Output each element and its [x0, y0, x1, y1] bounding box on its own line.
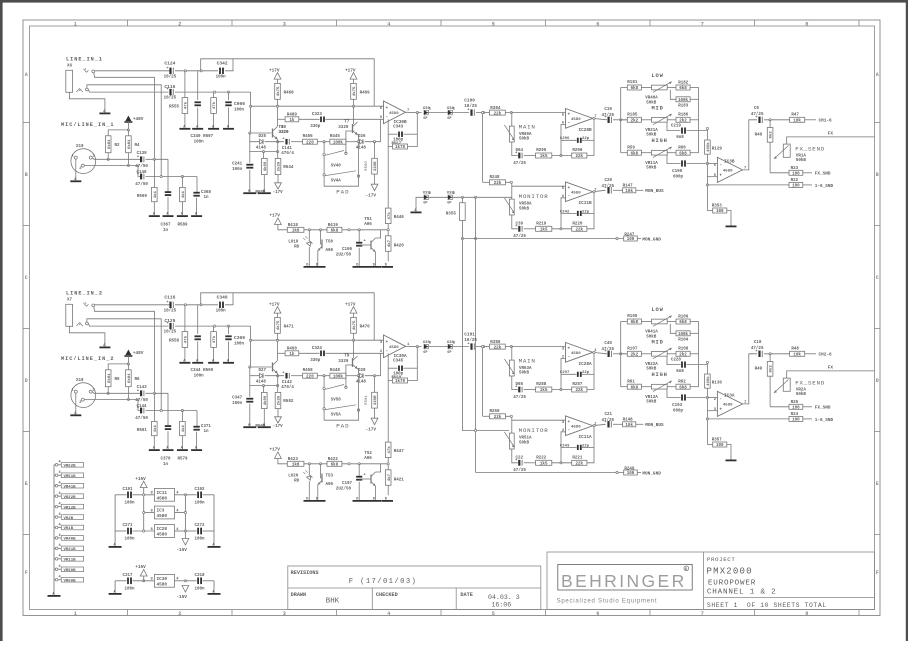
svg-text:IC28A: IC28A	[579, 362, 593, 367]
svg-text:3: 3	[283, 21, 286, 27]
svg-text:100n: 100n	[232, 402, 243, 406]
ground bias emitters	[353, 500, 382, 502]
wire line tip	[95, 70, 170, 72]
svg-text:A: A	[25, 72, 28, 78]
svg-text:DRAWN: DRAWN	[291, 592, 307, 598]
svg-text:6P: 6P	[423, 202, 427, 206]
svg-text:100n: 100n	[195, 538, 206, 542]
svg-text:R420: R420	[394, 244, 405, 248]
wire C139 out down to C367	[167, 393, 169, 425]
potentiometer terminal VR11B	[55, 558, 58, 561]
svg-text:4580: 4580	[157, 582, 168, 587]
svg-text:50kB: 50kB	[796, 158, 807, 163]
wire decouple right bus	[213, 495, 215, 542]
op-amp IC11 4580 power pins	[154, 488, 174, 501]
svg-text:A: A	[876, 72, 879, 78]
svg-text:VR62B: VR62B	[64, 465, 77, 469]
wire jack sleeve to ground	[69, 326, 105, 342]
svg-text:R: R	[685, 567, 687, 571]
capacitor C370 1n	[165, 425, 171, 427]
jack ring contact	[76, 323, 82, 327]
svg-text:D: D	[25, 378, 28, 384]
resistor R61 6k8	[621, 386, 628, 388]
svg-text:C193: C193	[672, 404, 683, 408]
svg-text:-17V: -17V	[366, 194, 377, 199]
wire monitor inverting input	[561, 432, 566, 448]
svg-text:2: 2	[178, 611, 181, 617]
potentiometer terminal VR50B	[55, 568, 58, 571]
svg-text:C345: C345	[393, 359, 404, 363]
op-amp IC3A 4580	[717, 391, 742, 416]
svg-text:+17V: +17V	[345, 302, 356, 307]
svg-text:+: +	[386, 106, 389, 111]
svg-text:100n: 100n	[125, 501, 136, 505]
svg-text:C10: C10	[754, 341, 762, 345]
svg-text:R295: R295	[536, 149, 547, 153]
svg-text:220: 220	[306, 375, 314, 379]
svg-text:MON_GND: MON_GND	[642, 471, 661, 476]
ground XLR pin1	[75, 393, 77, 410]
power +17V preamp right	[350, 307, 357, 314]
svg-text:6k8: 6k8	[631, 385, 639, 390]
wire EQ left bus	[620, 322, 622, 387]
wire jack sleeve to ground	[69, 92, 105, 108]
wire XLR pin3 to C139	[92, 158, 140, 160]
svg-text:100n: 100n	[195, 501, 206, 505]
wire EQ output	[743, 354, 758, 404]
svg-text:4148: 4148	[256, 381, 267, 385]
ground R420	[382, 500, 393, 502]
svg-text:+17V: +17V	[345, 68, 356, 73]
svg-text:CH1-6: CH1-6	[819, 119, 833, 124]
svg-text:R220: R220	[572, 223, 583, 227]
svg-text:VR41B: VR41B	[64, 485, 77, 489]
svg-text:A06: A06	[364, 223, 372, 227]
svg-text:PAD: PAD	[336, 422, 349, 429]
wire pad bottom	[324, 176, 358, 186]
svg-text:IC30B: IC30B	[394, 120, 408, 125]
svg-text:T51: T51	[364, 218, 372, 222]
svg-text:100: 100	[792, 407, 800, 411]
svg-text:4580: 4580	[723, 403, 733, 407]
svg-text:-: -	[386, 349, 389, 354]
svg-text:R447: R447	[394, 450, 405, 454]
svg-text:MONITOR: MONITOR	[519, 193, 549, 200]
svg-text:4148: 4148	[356, 147, 367, 151]
svg-text:47/50: 47/50	[135, 416, 148, 421]
svg-text:1k5: 1k5	[540, 228, 548, 233]
svg-text:-17V: -17V	[273, 191, 284, 195]
svg-text:OF 10 SHEETS TOTAL: OF 10 SHEETS TOTAL	[747, 602, 827, 609]
svg-text:T7: T7	[344, 120, 350, 124]
svg-text:R501: R501	[365, 395, 369, 405]
svg-text:BHK: BHK	[326, 598, 340, 606]
resistor R597 47k	[213, 92, 215, 98]
svg-text:VR1A: VR1A	[796, 154, 807, 158]
svg-text:100: 100	[792, 185, 800, 189]
svg-text:C317: C317	[123, 574, 134, 578]
svg-text:IC28: IC28	[157, 527, 168, 532]
svg-text:RD: RD	[294, 245, 300, 249]
resistor R589 1k1	[181, 177, 183, 188]
svg-text:LINE_IN_2: LINE_IN_2	[66, 291, 103, 297]
svg-text:5: 5	[492, 611, 495, 617]
svg-text:1k1: 1k1	[153, 424, 158, 432]
svg-text:+15V: +15V	[135, 565, 146, 570]
ground IC30 right	[213, 589, 215, 594]
svg-text:-: -	[568, 355, 571, 360]
svg-text:4580: 4580	[571, 118, 581, 122]
svg-text:IC30A: IC30A	[394, 354, 408, 359]
wire top rail to preamp	[201, 293, 375, 340]
wire EQ opamp inputs	[707, 397, 717, 399]
svg-text:6k8: 6k8	[679, 385, 687, 390]
svg-text:F: F	[25, 570, 28, 576]
wire EQ opamp inputs	[707, 163, 717, 165]
svg-text:-15V: -15V	[176, 548, 187, 553]
svg-text:CH2-6: CH2-6	[819, 353, 833, 358]
wire FX bus	[787, 137, 875, 144]
svg-text:10/25: 10/25	[164, 309, 177, 314]
svg-text:2k26: 2k26	[277, 161, 282, 171]
svg-text:50kB: 50kB	[519, 371, 530, 376]
power +15V IC30	[140, 570, 147, 577]
transistor T8 3329	[251, 92, 272, 133]
wire monitor feedback	[512, 449, 518, 463]
svg-text:100k: 100k	[678, 98, 689, 103]
svg-text:47k: 47k	[387, 212, 392, 220]
jack ring contact	[76, 89, 82, 93]
svg-text:6k81: 6k81	[127, 139, 132, 149]
svg-text:+: +	[386, 340, 389, 345]
svg-text:100k: 100k	[333, 374, 344, 379]
svg-text:2: 2	[178, 21, 181, 27]
svg-text:C323: C323	[312, 113, 323, 117]
potentiometer terminal VR12B	[55, 505, 58, 508]
op-amp IC11A 4580	[566, 416, 593, 436]
svg-text:6k8: 6k8	[631, 151, 639, 156]
svg-text:8k2: 8k2	[769, 131, 774, 139]
svg-text:DATE: DATE	[460, 592, 472, 598]
svg-text:C40: C40	[604, 342, 612, 346]
op-amp IC28 4580 power pins	[154, 525, 174, 538]
svg-text:1k5: 1k5	[540, 388, 548, 393]
svg-text:T53: T53	[326, 475, 334, 479]
svg-text:2U2/50: 2U2/50	[336, 252, 352, 257]
svg-text:220: 220	[306, 141, 314, 145]
svg-text:R558: R558	[169, 340, 180, 344]
svg-text:5: 5	[492, 21, 495, 27]
wire line ring	[88, 90, 168, 93]
svg-text:100k: 100k	[678, 332, 689, 337]
svg-text:1n: 1n	[163, 463, 169, 467]
resistor R107 2k2	[621, 353, 628, 355]
svg-text:B: B	[25, 172, 28, 178]
power +17V bias	[275, 218, 282, 225]
resistor R556 4k99	[263, 152, 265, 159]
svg-text:100: 100	[792, 173, 800, 177]
wire opamp output	[406, 111, 422, 113]
svg-text:100: 100	[716, 444, 724, 448]
svg-text:C271: C271	[123, 524, 134, 528]
svg-text:IC30: IC30	[157, 577, 168, 582]
svg-text:C190: C190	[672, 170, 683, 174]
svg-text:1k5: 1k5	[540, 462, 548, 467]
svg-text:100k: 100k	[333, 140, 344, 145]
svg-text:VR12A: VR12A	[645, 396, 658, 400]
svg-text:1k8: 1k8	[292, 229, 300, 234]
svg-text:100n: 100n	[194, 141, 205, 145]
svg-text:E: E	[25, 481, 28, 487]
op-amp IC30 4580 power pins	[154, 574, 174, 587]
ground monitor insert	[416, 197, 424, 208]
wire line tip	[95, 304, 170, 306]
svg-text:4580: 4580	[157, 533, 168, 538]
svg-text:47/50: 47/50	[135, 182, 148, 187]
svg-text:MON_BUS: MON_BUS	[645, 189, 664, 194]
svg-text:LINE_IN_1: LINE_IN_1	[66, 57, 103, 63]
op-amp IC11B 4580	[566, 182, 593, 202]
svg-text:+: +	[719, 173, 722, 178]
svg-text:A06: A06	[326, 249, 334, 253]
svg-text:HIGH: HIGH	[652, 372, 668, 378]
svg-text:6k81: 6k81	[127, 373, 132, 383]
svg-text:SHEET 1: SHEET 1	[707, 602, 738, 609]
svg-text:330p: 330p	[310, 125, 321, 129]
svg-text:2k2: 2k2	[679, 119, 687, 124]
svg-text:VR58A: VR58A	[519, 203, 532, 207]
power +17V preamp left	[274, 307, 281, 314]
svg-text:1k8: 1k8	[292, 463, 300, 468]
Behringer logo	[558, 564, 692, 590]
svg-text:MID: MID	[652, 105, 664, 111]
wire monitor fader to opamp	[512, 185, 566, 187]
wire insert bus down to channel 2 monitor	[462, 221, 509, 431]
svg-text:C21: C21	[605, 413, 613, 417]
svg-text:C191: C191	[123, 488, 134, 492]
wire main inverting input	[561, 125, 566, 141]
svg-text:R456: R456	[303, 135, 314, 139]
svg-text:6n8: 6n8	[676, 370, 684, 374]
column reference ticks and numbers	[127, 20, 129, 26]
svg-text:R591: R591	[137, 429, 148, 433]
svg-text:FX_SND: FX_SND	[815, 172, 831, 177]
svg-text:8k2: 8k2	[769, 365, 774, 373]
svg-text:D28: D28	[358, 369, 366, 373]
svg-text:C347: C347	[232, 396, 243, 400]
svg-text:VR11B: VR11B	[64, 559, 77, 563]
svg-text:220R: 220R	[374, 395, 378, 405]
svg-text:22k: 22k	[494, 415, 502, 420]
svg-text:R296: R296	[572, 149, 583, 153]
svg-text:C124: C124	[164, 61, 175, 67]
svg-text:6k8: 6k8	[331, 463, 339, 468]
svg-text:+: +	[568, 420, 571, 425]
svg-text:47/25: 47/25	[513, 395, 526, 400]
resistor R579 1k1	[181, 411, 183, 422]
svg-text:6k8: 6k8	[679, 86, 687, 91]
svg-text:100n: 100n	[216, 310, 227, 314]
wire monitor output	[593, 190, 606, 191]
svg-text:6P: 6P	[447, 117, 451, 121]
svg-text:7: 7	[701, 21, 704, 27]
svg-text:22k: 22k	[494, 345, 502, 350]
resistor R105 6k8	[621, 321, 628, 323]
svg-text:FX_SND: FX_SND	[815, 406, 831, 411]
svg-text:C370: C370	[161, 458, 172, 462]
transistor T10 3329	[251, 326, 272, 367]
svg-text:C101: C101	[464, 332, 475, 337]
wire main output	[593, 118, 607, 119]
resistor R183 100k	[670, 90, 676, 100]
svg-text:4580: 4580	[723, 169, 733, 173]
svg-text:+17V: +17V	[269, 448, 280, 453]
svg-text:R59: R59	[627, 146, 635, 150]
ground jack sleeve	[104, 108, 106, 113]
svg-text:IC11A: IC11A	[579, 435, 593, 440]
svg-text:VR2A: VR2A	[796, 388, 807, 392]
wire monitor feedback	[512, 215, 518, 229]
op-amp IC3 4580 power pins	[154, 506, 174, 519]
wire top rail to preamp	[201, 59, 375, 106]
svg-text:100: 100	[627, 238, 635, 242]
svg-text:47/25: 47/25	[513, 161, 526, 166]
svg-text:C346: C346	[217, 295, 228, 301]
svg-text:R2: R2	[115, 144, 121, 148]
svg-text:2k2: 2k2	[631, 353, 639, 358]
svg-text:R129: R129	[712, 148, 723, 152]
svg-text:C324: C324	[312, 347, 323, 351]
svg-text:100n: 100n	[195, 587, 206, 591]
svg-text:6k8: 6k8	[631, 86, 639, 91]
svg-text:47k: 47k	[184, 101, 189, 109]
svg-text:C343: C343	[393, 125, 404, 129]
svg-text:C9: C9	[754, 107, 760, 111]
svg-text:LO19: LO19	[288, 240, 299, 244]
ground VR list	[53, 591, 55, 596]
svg-text:+: +	[568, 186, 571, 191]
svg-text:C368: C368	[201, 191, 212, 195]
svg-text:+: +	[568, 347, 571, 352]
wire FX bus	[787, 371, 875, 378]
svg-text:100n: 100n	[234, 109, 245, 113]
svg-text:2k2: 2k2	[679, 353, 687, 358]
svg-text:VR40A: VR40A	[645, 97, 658, 101]
svg-text:R468: R468	[284, 91, 295, 95]
svg-text:+17V: +17V	[269, 302, 280, 307]
svg-text:IC3A: IC3A	[724, 394, 735, 399]
connector X39 pin 2 monitor	[424, 195, 428, 199]
svg-text:1k78: 1k78	[395, 145, 406, 150]
power +15V decoupling	[140, 481, 147, 488]
svg-text:470/4: 470/4	[281, 151, 294, 156]
svg-text:C100: C100	[464, 98, 475, 103]
svg-text:VR40B: VR40B	[64, 538, 77, 542]
svg-text:10k: 10k	[793, 353, 801, 358]
svg-text:4k99: 4k99	[263, 161, 268, 171]
svg-text:R104: R104	[678, 339, 689, 343]
svg-text:IC11B: IC11B	[579, 201, 593, 206]
svg-text:100: 100	[792, 419, 800, 423]
ground tail	[249, 422, 251, 427]
potentiometer terminal VR62B	[55, 464, 58, 467]
op-amp IC3B 4580	[717, 157, 742, 182]
potentiometer terminal VR2B	[55, 516, 58, 519]
power +17V preamp right	[350, 73, 357, 80]
svg-text:VR51A: VR51A	[519, 437, 532, 441]
svg-text:6P: 6P	[447, 351, 451, 355]
svg-text:D25: D25	[259, 135, 267, 139]
svg-text:D26: D26	[358, 135, 366, 139]
svg-text:+17V: +17V	[269, 214, 280, 219]
svg-text:VR60B: VR60B	[64, 579, 77, 583]
ground EQ out	[730, 455, 732, 460]
resistor R590 47k	[213, 326, 215, 332]
svg-text:47/50: 47/50	[135, 398, 148, 403]
svg-text:R589: R589	[178, 224, 189, 228]
svg-text:R544: R544	[283, 166, 294, 170]
svg-text:600p: 600p	[673, 409, 684, 413]
wire line ring	[88, 324, 168, 327]
svg-text:R185: R185	[627, 114, 638, 118]
ground LED bias	[304, 500, 326, 502]
svg-text:47/50: 47/50	[135, 164, 148, 169]
svg-text:SV50: SV50	[331, 398, 342, 402]
svg-text:4580: 4580	[389, 112, 399, 116]
+48V phantom supply	[125, 350, 131, 356]
potentiometer terminal VR21B	[55, 547, 58, 550]
ground mic filter bank	[153, 445, 155, 450]
svg-text:-17V: -17V	[273, 425, 284, 429]
svg-text:22k: 22k	[576, 388, 584, 393]
svg-text:VR60A: VR60A	[519, 133, 532, 137]
wire preamp noninverting input	[251, 339, 384, 341]
svg-text:C141: C141	[282, 147, 293, 151]
power -17V tail	[275, 417, 282, 423]
svg-text:1k78: 1k78	[395, 379, 406, 384]
svg-text:D27: D27	[259, 369, 267, 373]
svg-text:R579: R579	[178, 458, 189, 462]
svg-text:F (17/01/03): F (17/01/03)	[349, 578, 418, 586]
svg-text:100: 100	[627, 472, 635, 476]
svg-text:-: -	[568, 428, 571, 433]
svg-text:6k81: 6k81	[107, 373, 112, 383]
power -17V tail	[275, 183, 282, 189]
connector X38 pin 3	[448, 344, 452, 348]
connector X39 pin 3	[424, 344, 428, 348]
svg-text:6P: 6P	[423, 351, 427, 355]
svg-text:6n8: 6n8	[676, 136, 684, 140]
potentiometer terminal VR22B	[55, 495, 58, 498]
svg-text:10k: 10k	[793, 119, 801, 124]
ground bias emitters	[353, 266, 382, 268]
svg-text:C272: C272	[195, 524, 206, 528]
ground LED bias	[304, 266, 326, 268]
svg-text:R46: R46	[755, 133, 763, 137]
svg-text:6k8: 6k8	[331, 229, 339, 234]
svg-text:CHECKED: CHECKED	[376, 592, 398, 598]
svg-text:8: 8	[805, 611, 808, 617]
svg-text:6P: 6P	[447, 202, 451, 206]
svg-text:6: 6	[596, 611, 599, 617]
wire tail row	[249, 151, 277, 153]
svg-text:R4: R4	[135, 144, 141, 148]
svg-text:4k7: 4k7	[387, 239, 392, 247]
svg-text:47k: 47k	[184, 335, 189, 343]
svg-text:3329: 3329	[279, 131, 290, 135]
ground EQ out	[730, 221, 732, 226]
svg-text:R469: R469	[360, 91, 371, 95]
